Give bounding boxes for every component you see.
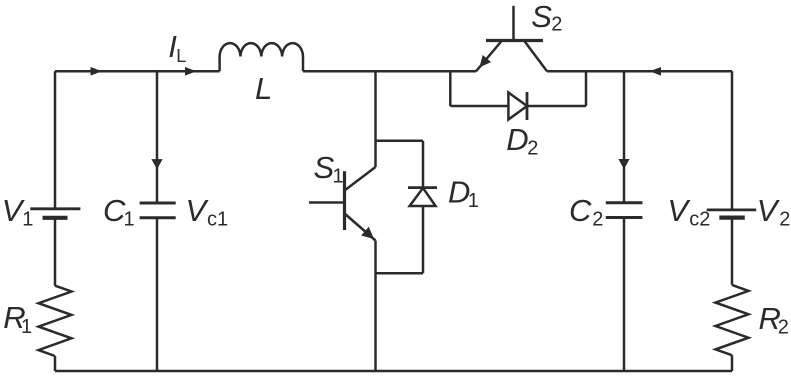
battery V2 short plate bbox=[719, 216, 745, 220]
capacitor C2 bottom plate bbox=[606, 216, 643, 219]
wire R1 to bottom rail bbox=[54, 356, 57, 371]
wire bottom rail bbox=[55, 370, 732, 373]
svg-text:V: V bbox=[667, 193, 691, 228]
diode D2 triangle bbox=[508, 93, 527, 120]
wire S1 emitter down to bottom rail bbox=[374, 241, 377, 372]
svg-text:V: V bbox=[757, 193, 781, 228]
wire branch to D1 top bbox=[376, 140, 424, 143]
svg-text:1: 1 bbox=[21, 316, 32, 338]
capacitor C2 top plate bbox=[606, 201, 643, 204]
svg-text:D: D bbox=[506, 122, 528, 157]
arrow left on top right wire bbox=[650, 67, 661, 76]
wire C1 branch upper bbox=[156, 71, 159, 203]
battery V1 short plate bbox=[43, 216, 68, 220]
capacitor C1 bottom plate bbox=[140, 216, 176, 219]
svg-text:S: S bbox=[314, 150, 335, 185]
wire top rail inductor to S2 emitter bbox=[303, 70, 476, 73]
transistor S2 collector slant bbox=[524, 41, 547, 72]
transistor S1 emitter slant bbox=[345, 214, 376, 241]
diode D2 cathode bar bbox=[526, 92, 529, 120]
svg-text:c1: c1 bbox=[207, 209, 228, 231]
transistor S1 emitter arrowhead bbox=[361, 227, 374, 239]
wire D2 left drop bbox=[449, 71, 452, 106]
transistor S2 emitter slant bbox=[476, 41, 502, 72]
svg-text:1: 1 bbox=[468, 190, 479, 212]
svg-text:2: 2 bbox=[527, 137, 538, 159]
svg-text:2: 2 bbox=[778, 317, 789, 339]
svg-text:2: 2 bbox=[592, 209, 603, 231]
svg-text:2: 2 bbox=[779, 209, 790, 231]
wire V1 to R1 bbox=[54, 218, 57, 286]
wire right vertical top bbox=[731, 71, 734, 210]
wire D2 right rise bbox=[585, 71, 588, 106]
transistor S2 base stub bbox=[512, 6, 515, 41]
svg-text:1: 1 bbox=[333, 166, 344, 188]
arrow down on C2 branch bbox=[618, 159, 629, 169]
svg-text:c2: c2 bbox=[689, 209, 710, 231]
resistor R2 bbox=[716, 285, 749, 355]
svg-text:C: C bbox=[569, 193, 592, 228]
node IL arrow (right) bbox=[185, 67, 197, 76]
svg-text:S: S bbox=[531, 0, 552, 34]
wire C2 branch lower bbox=[623, 218, 626, 372]
svg-text:2: 2 bbox=[551, 14, 562, 36]
inductor L bbox=[220, 43, 303, 71]
diode D1 triangle bbox=[410, 188, 436, 206]
svg-text:1: 1 bbox=[124, 209, 135, 231]
transistor S1 bar bbox=[343, 171, 346, 230]
wire top rail right segment bbox=[547, 70, 732, 73]
capacitor C1 top plate bbox=[140, 202, 176, 205]
wire top rail left segment bbox=[55, 70, 220, 73]
svg-text:1: 1 bbox=[22, 209, 33, 231]
wire R2 to bottom rail bbox=[731, 355, 734, 371]
battery V1 long plate bbox=[30, 207, 80, 210]
wire C1 branch lower bbox=[156, 218, 159, 371]
arrow down on C1 branch bbox=[151, 159, 162, 169]
transistor S1 collector wire from top rail bbox=[374, 71, 377, 167]
diode D1 cathode bar bbox=[408, 186, 437, 189]
wire D2 left horizontal bbox=[450, 105, 508, 108]
wire D2 right horizontal bbox=[527, 105, 586, 108]
transistor S2 emitter arrowhead bbox=[480, 55, 492, 67]
svg-text:L: L bbox=[176, 46, 186, 66]
svg-text:L: L bbox=[255, 71, 272, 106]
svg-text:V: V bbox=[186, 193, 210, 228]
resistor R1 bbox=[39, 286, 72, 356]
wire V2 to R2 bbox=[731, 218, 734, 285]
wire C2 branch upper bbox=[623, 71, 626, 203]
node A arrow current into circuit (right) bbox=[91, 67, 103, 76]
wire branch to D1 bottom bbox=[376, 272, 424, 275]
wire left vertical (top of V1) bbox=[54, 71, 57, 209]
diode D1 upper wire bbox=[422, 141, 425, 188]
transistor S2 bar bbox=[486, 39, 543, 42]
diode D1 lower wire bbox=[422, 206, 425, 273]
transistor S1 collector slant bbox=[345, 167, 376, 191]
transistor S1 base stub bbox=[309, 201, 345, 204]
battery V2 long plate bbox=[707, 208, 757, 211]
